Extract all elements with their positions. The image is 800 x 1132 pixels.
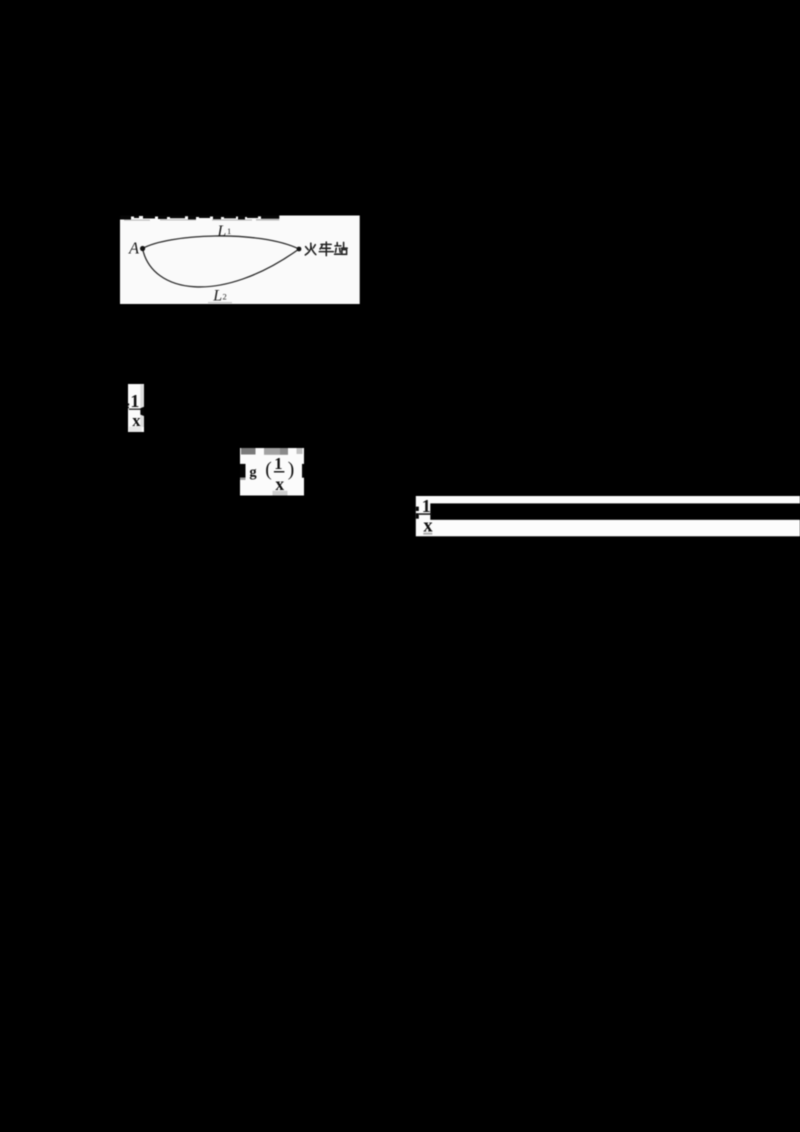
- gray bottom of small fraction patch: [129, 427, 142, 433]
- route curve L1 (upper): [143, 236, 300, 249]
- svg-text:1: 1: [227, 226, 231, 236]
- faint gray artifact line under L2: [208, 302, 232, 303]
- svg-text:(: (: [265, 460, 272, 481]
- gray cut-off blocks along top of g(1/x) patch: [241, 448, 256, 455]
- svg-text:L: L: [212, 287, 222, 304]
- char 火: [310, 243, 312, 247]
- svg-text:A: A: [128, 238, 140, 257]
- fraction bar: [274, 471, 285, 472]
- white scan fragment: small fraction 1/x: [128, 384, 144, 432]
- gray smudge under cut-off band: [124, 219, 279, 221]
- node A dot: [140, 246, 145, 251]
- cut character marks at left edge of strip: [416, 507, 419, 511]
- char 站: [336, 243, 338, 246]
- cut character notch at right edge: [140, 407, 144, 416]
- svg-text:1: 1: [422, 496, 431, 516]
- svg-text:1: 1: [130, 391, 139, 411]
- comma marks at left edge: [128, 403, 129, 405]
- white scan fragment: route diagram box: [120, 216, 360, 305]
- fraction bar: [129, 409, 141, 410]
- redaction black bar: [430, 503, 800, 519]
- route curve L2 (lower): [143, 249, 300, 287]
- svg-text:2: 2: [223, 292, 227, 302]
- black cut character at left edge: [240, 464, 246, 478]
- white scan fragment: long strip with 1/x and redaction bar: [416, 496, 800, 536]
- fraction bar: [419, 513, 432, 515]
- gray right column of small fraction patch: [140, 385, 144, 428]
- cut-off text band along top of diagram box: [120, 216, 279, 220]
- svg-text:g: g: [249, 464, 257, 480]
- gray block at bottom: [273, 491, 288, 496]
- white scan fragment: g(1/x): [240, 448, 304, 496]
- svg-text:L: L: [216, 223, 226, 240]
- svg-text:1: 1: [274, 454, 282, 473]
- svg-text:): ): [288, 460, 295, 481]
- hand-drawn 火车站 station label: [305, 242, 347, 256]
- char 车: [321, 243, 331, 245]
- gray underline under x: [423, 533, 432, 535]
- cut character at right edge: [302, 464, 304, 478]
- node 火车站 dot: [297, 247, 302, 252]
- svg-text:x: x: [132, 411, 141, 430]
